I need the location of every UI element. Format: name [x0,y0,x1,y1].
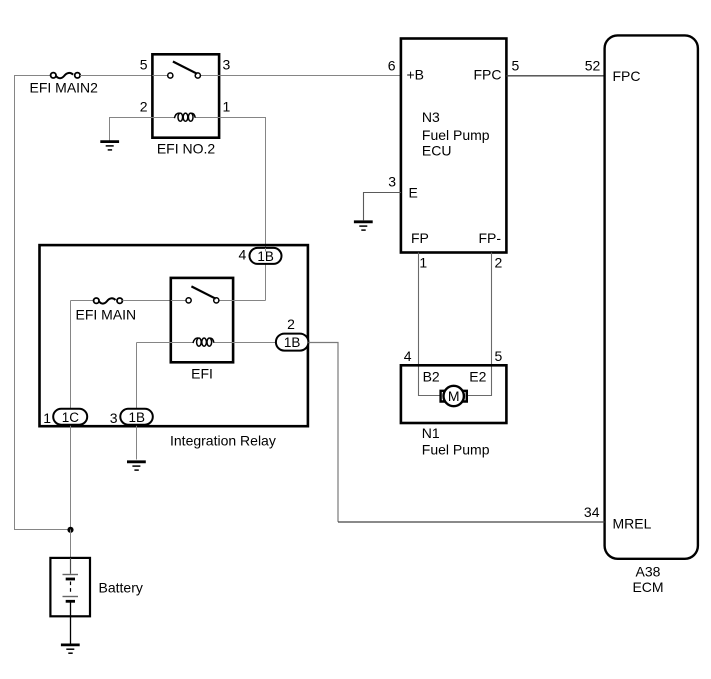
ground under 3(1B) [127,462,146,470]
battery box [50,558,90,616]
wire fuse to EFI relay [122,300,170,302]
svg-text:+B: +B [407,67,425,83]
svg-text:1C: 1C [62,410,80,425]
wire pin 1 right then down to 4(1B) [219,118,265,301]
svg-text:1B: 1B [284,335,301,350]
wire FPC to ECM [506,75,604,77]
wire relay coil row inside [152,117,219,119]
wire EFI MAIN row [71,300,94,302]
N1 Fuel Pump box [401,365,507,423]
svg-text:FP: FP [411,230,429,246]
N3 Fuel Pump ECU box [401,39,507,253]
fuse EFI MAIN2 [51,73,81,79]
wire junction to battery [70,530,72,558]
svg-text:1B: 1B [257,249,274,264]
wire EFI switch row stubs [171,300,266,302]
svg-text:52: 52 [585,58,601,74]
relay EFI NO.2 switch [168,62,201,79]
wire 3(1B) to ground [136,424,138,460]
wire battery to ground [70,616,72,644]
svg-text:FP-: FP- [478,230,501,246]
wire EFI MAIN down to 1C [70,301,72,410]
junction dot [67,527,73,533]
svg-text:A38: A38 [636,564,661,580]
svg-text:1: 1 [419,254,427,270]
fuse EFI MAIN [94,298,123,304]
svg-text:B2: B2 [423,368,440,384]
ground at E [354,222,373,230]
relay EFI NO.2 box [152,54,219,137]
svg-text:EFI NO.2: EFI NO.2 [157,141,216,157]
svg-text:Integration Relay: Integration Relay [170,433,276,449]
svg-text:5: 5 [512,58,520,74]
svg-text:N3: N3 [422,109,440,125]
svg-text:EFI: EFI [191,366,213,382]
relay EFI box [171,278,233,362]
svg-text:1: 1 [223,99,231,115]
wire pin2 to ground [110,118,153,142]
svg-text:6: 6 [388,58,396,74]
svg-text:3: 3 [110,410,118,426]
wire top supply row to fuse [14,75,51,77]
connector 4 (1B) oval [250,248,282,264]
svg-text:3: 3 [388,174,396,190]
relay EFI coil [193,338,214,346]
svg-text:1B: 1B [128,410,145,425]
svg-text:Fuel Pump: Fuel Pump [422,442,490,458]
svg-text:M: M [448,388,460,404]
svg-text:5: 5 [495,348,503,364]
wire 1C to junction [70,424,72,530]
connector 2 (1B) oval [276,334,309,351]
wire junction row [14,529,71,531]
svg-text:E: E [409,185,418,201]
svg-text:E2: E2 [469,368,486,384]
svg-text:2: 2 [140,99,148,115]
relay EFI NO.2 coil [174,113,195,121]
connector 3 (1B) oval [120,409,153,425]
relay EFI switch [186,286,219,303]
svg-text:34: 34 [584,504,600,520]
ECM box [605,35,698,558]
svg-text:N1: N1 [422,425,440,441]
svg-text:4: 4 [239,247,247,263]
wire left frame vertical [14,75,16,530]
wire FP to pump [419,253,441,396]
svg-text:Fuel Pump: Fuel Pump [422,127,490,143]
motor M symbol [441,386,467,406]
svg-text:5: 5 [140,57,148,73]
wire coil row down to 3(1B) [136,343,138,410]
svg-text:1: 1 [43,410,51,426]
svg-text:EFI MAIN2: EFI MAIN2 [30,80,99,96]
wire pin 3 to N3 +B [219,75,401,77]
ground under EFI NO.2 [100,142,119,150]
wire relay switch row stubs [152,75,219,77]
battery cells [63,558,79,616]
svg-text:MREL: MREL [613,516,652,532]
svg-text:2: 2 [287,316,295,332]
connector 1 (1C) oval [53,409,87,425]
integration relay box [40,245,308,426]
svg-text:ECM: ECM [632,579,663,595]
svg-text:3: 3 [223,57,231,73]
svg-text:FPC: FPC [474,67,502,83]
wire EFI coil row [137,342,276,344]
svg-text:EFI MAIN: EFI MAIN [76,307,137,323]
wire E to ground [364,193,401,221]
ground under battery [61,645,80,653]
wire 2(1B) to MREL [308,343,604,523]
wire fuse to relay EFI NO.2 pin 5 [80,75,152,77]
svg-text:FPC: FPC [613,68,641,84]
svg-text:Battery: Battery [99,580,143,596]
svg-text:ECU: ECU [422,142,452,158]
svg-text:2: 2 [495,254,503,270]
wire FP- to pump [468,253,492,396]
svg-text:4: 4 [404,348,412,364]
